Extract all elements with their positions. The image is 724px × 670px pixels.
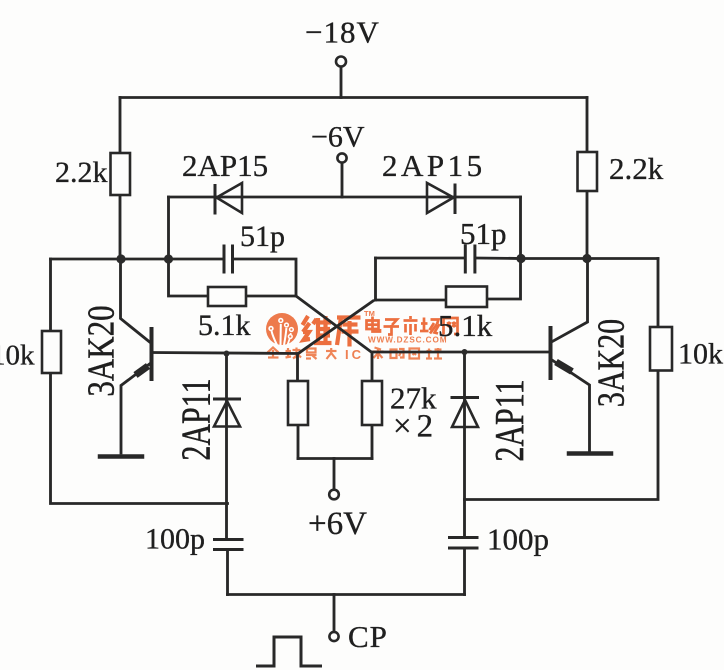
terminal -18V stem xyxy=(340,67,343,98)
wire right drop lower xyxy=(586,191,589,259)
terminal +6V circle xyxy=(329,490,339,500)
wire node row right xyxy=(521,257,658,260)
ground left xyxy=(100,454,142,459)
svg-text:3AK20: 3AK20 xyxy=(590,319,632,407)
svg-text:+6V: +6V xyxy=(308,506,367,542)
watermark logo circle xyxy=(266,313,298,345)
svg-text:2.2k: 2.2k xyxy=(609,151,664,186)
svg-text:5.1k: 5.1k xyxy=(438,308,493,343)
capacitor C4 100p right plates xyxy=(448,538,479,549)
CP pulse symbol xyxy=(256,637,322,666)
resistor R5 5.1k left xyxy=(208,287,246,306)
wire top rail xyxy=(120,96,587,99)
diode D1 2AP15 left xyxy=(215,183,242,215)
wire right 10k branch xyxy=(657,259,660,328)
resistor R2 2.2k right xyxy=(578,152,598,191)
wire right drop upper xyxy=(586,98,589,153)
transistor Q2 base bar xyxy=(549,328,553,378)
svg-text:10k: 10k xyxy=(678,338,723,371)
wire diode row xyxy=(169,196,521,199)
resistor R8 27k right xyxy=(362,381,382,425)
svg-text:2AP15: 2AP15 xyxy=(382,148,486,183)
diode D2 2AP15 right xyxy=(427,183,455,214)
node dot A (left collector node) xyxy=(116,254,125,263)
wire right base xyxy=(372,351,550,354)
terminal CP stem xyxy=(333,595,336,632)
transistor Q2 emitter xyxy=(551,359,590,451)
diode D4 stem xyxy=(463,352,466,538)
resistor R6 5.1k right xyxy=(446,287,487,308)
terminal -6V stem xyxy=(341,163,344,197)
resistor R4 10k right xyxy=(650,327,672,371)
capacitor C3 100p left plates xyxy=(213,540,244,550)
watermark slogan 全球最大IC采购网站 xyxy=(268,348,443,360)
resistor R7 27k left xyxy=(288,381,308,425)
wire 27k bottom link xyxy=(298,457,372,460)
watermark big characters 维库 xyxy=(303,316,361,347)
wire left base xyxy=(152,353,298,354)
diode D3 2AP11 left xyxy=(213,399,241,427)
svg-text:×2: ×2 xyxy=(393,409,438,445)
svg-text:51p: 51p xyxy=(460,216,507,251)
terminal CP circle xyxy=(329,632,338,641)
svg-text:100p: 100p xyxy=(145,523,205,556)
transistor Q1 emitter xyxy=(121,363,152,454)
wire left 5.1k left link xyxy=(169,259,209,296)
capacitor C1 51p left plates xyxy=(224,245,233,274)
resistor R1 2.2k left xyxy=(111,153,131,195)
transistor Q1 base bar xyxy=(150,329,154,379)
diode D4 2AP11 right xyxy=(451,398,480,428)
resistor R3 10k left xyxy=(42,331,61,373)
capacitor C4 lower stem xyxy=(463,549,466,595)
diode D3 stem xyxy=(225,354,228,540)
wire left cap to corner xyxy=(234,259,296,296)
wire left drop upper xyxy=(119,98,122,154)
wire right 5.1k right link xyxy=(487,259,521,300)
svg-text:2.2k: 2.2k xyxy=(55,156,108,189)
wire diagonal B (right RC to left base) xyxy=(298,301,374,354)
wire bottom rail xyxy=(228,593,465,596)
capacitor C2 51p right plates xyxy=(465,245,475,274)
node dot E (left base / D3) xyxy=(224,351,230,357)
wire diagonal A (left RC to right base) xyxy=(296,296,372,353)
node dot F (right base / D4) xyxy=(462,349,468,355)
wire right cap right link xyxy=(476,257,521,260)
terminal +6V stem xyxy=(333,459,336,490)
ground right xyxy=(569,451,611,456)
terminal -18V circle xyxy=(336,57,346,67)
wire right vert diode to node xyxy=(519,197,522,259)
wire left vert diode to node xyxy=(167,197,170,259)
svg-text:51p: 51p xyxy=(240,220,285,253)
transistor Q1 emitter arrow xyxy=(136,366,149,375)
svg-text:100p: 100p xyxy=(487,522,549,557)
wire left 27k drop xyxy=(296,354,299,381)
transistor Q1 collector xyxy=(121,259,152,344)
transistor Q2 emitter arrow xyxy=(556,362,572,372)
wire right 5.1k left link xyxy=(376,299,447,302)
svg-text:2AP15: 2AP15 xyxy=(182,148,268,183)
watermark 电子市场网 xyxy=(367,316,458,335)
terminal -6V circle xyxy=(337,153,346,162)
wire node row left xyxy=(51,258,223,261)
wire right cap left link xyxy=(376,257,465,260)
node dot C (right RC node) xyxy=(516,254,525,263)
svg-text:10k: 10k xyxy=(0,340,35,372)
svg-text:3AK20: 3AK20 xyxy=(81,305,123,396)
svg-text:5.1k: 5.1k xyxy=(198,309,251,342)
wire left 5.1k right link xyxy=(246,295,296,298)
transistor Q2 collector xyxy=(551,259,588,343)
svg-text:−6V: −6V xyxy=(311,121,365,154)
capacitor C3 lower stem xyxy=(226,550,229,595)
svg-text:−18V: −18V xyxy=(305,15,380,50)
node dot B (left RC node) xyxy=(164,254,173,263)
node dot D (right collector node) xyxy=(582,254,591,263)
wire left 10k branch xyxy=(49,259,52,331)
svg-text:IC: IC xyxy=(345,347,364,362)
svg-text:2AP11: 2AP11 xyxy=(173,378,219,460)
svg-text:CP: CP xyxy=(348,619,388,654)
wire right 27k drop xyxy=(371,353,374,382)
svg-text:WWW.DZSC.COM: WWW.DZSC.COM xyxy=(368,336,447,345)
wire right cap corner drop xyxy=(374,258,377,300)
wire left drop lower xyxy=(119,195,122,259)
svg-text:2AP11: 2AP11 xyxy=(486,379,532,461)
